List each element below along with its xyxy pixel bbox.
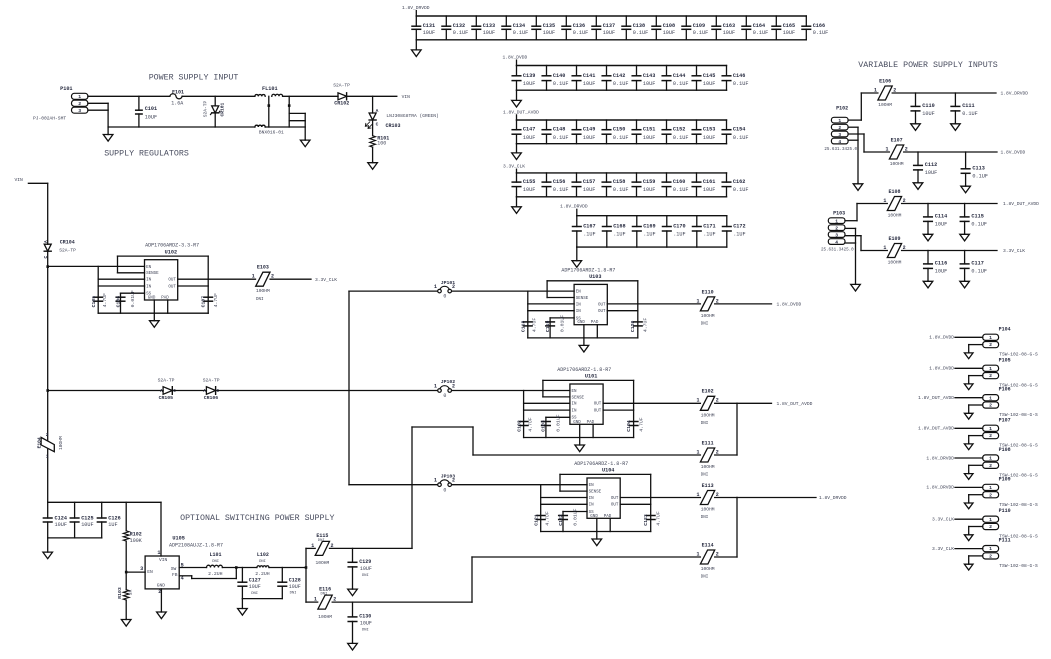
ground — [300, 140, 310, 147]
svg-text:10UF: 10UF — [703, 135, 715, 141]
svg-text:U102: U102 — [165, 249, 177, 255]
capacitor C141 — [572, 66, 595, 91]
wire SS — [121, 293, 145, 313]
svg-text:1: 1 — [838, 118, 841, 124]
svg-text:CR104: CR104 — [60, 240, 75, 246]
svg-text:0.1UF: 0.1UF — [573, 30, 589, 36]
svg-text:1.6A: 1.6A — [171, 100, 183, 106]
ground — [412, 40, 422, 57]
svg-text:L101: L101 — [210, 552, 222, 558]
zener diode CR101 — [202, 96, 225, 127]
svg-text:1: 1 — [883, 198, 886, 204]
svg-text:DNI: DNI — [212, 560, 219, 564]
svg-text:OPTIONAL SWITCHING POWER SUPPL: OPTIONAL SWITCHING POWER SUPPLY — [180, 514, 334, 523]
svg-text:10UF: 10UF — [483, 30, 495, 36]
ground — [964, 534, 973, 540]
svg-text:DNI: DNI — [362, 628, 369, 632]
capacitor C114 — [924, 204, 948, 234]
svg-text:1.8V_DVDD: 1.8V_DVDD — [777, 302, 802, 308]
svg-text:C151: C151 — [643, 127, 655, 133]
svg-text:P109: P109 — [999, 476, 1011, 482]
svg-text:1: 1 — [989, 395, 992, 401]
ground — [964, 444, 973, 450]
svg-text:1: 1 — [696, 449, 699, 455]
resistor R103 — [117, 572, 134, 619]
ground — [157, 612, 167, 619]
wire LED branch — [372, 96, 374, 113]
svg-text:C146: C146 — [733, 73, 745, 79]
capacitor C129 — [348, 548, 372, 588]
svg-text:0: 0 — [443, 294, 446, 300]
svg-text:E116: E116 — [319, 587, 331, 593]
capacitor C107 — [200, 293, 219, 308]
svg-text:C123: C123 — [643, 514, 649, 526]
svg-text:E111: E111 — [702, 440, 714, 446]
svg-text:4.7UF: 4.7UF — [545, 511, 551, 526]
svg-text:E114: E114 — [702, 542, 714, 548]
capacitor C166 — [802, 16, 828, 40]
svg-text:10UF: 10UF — [643, 135, 655, 141]
ground — [964, 384, 973, 390]
net label 1.8V_DUT_AVDD — [918, 395, 954, 401]
svg-text:0.1UF: 0.1UF — [693, 30, 709, 36]
svg-text:C169: C169 — [643, 224, 655, 230]
wire IN — [528, 291, 574, 338]
wire OUT — [603, 403, 634, 410]
svg-text:4.7UF: 4.7UF — [643, 318, 649, 333]
svg-text:C125: C125 — [81, 516, 93, 522]
svg-text:10UF: 10UF — [935, 222, 947, 228]
svg-text:C164: C164 — [753, 23, 765, 29]
wire E115 input — [306, 547, 315, 549]
svg-text:CR101: CR101 — [220, 102, 226, 116]
svg-text:C155: C155 — [523, 179, 535, 185]
svg-text:1: 1 — [989, 546, 992, 552]
capacitor C130 — [348, 602, 372, 643]
net label 3.3V_CLK — [1003, 248, 1025, 254]
svg-text:CR105: CR105 — [159, 395, 174, 401]
svg-text:C112: C112 — [925, 162, 937, 168]
ferrite bead E103 — [252, 265, 274, 302]
svg-text:SENSE: SENSE — [589, 491, 602, 495]
svg-text:2: 2 — [716, 492, 719, 498]
wire SENSE feedback — [118, 256, 209, 313]
svg-text:A: A — [44, 240, 49, 243]
svg-text:3: 3 — [78, 108, 81, 114]
capacitor C169 — [633, 216, 656, 247]
svg-text:IN: IN — [146, 285, 152, 289]
svg-text:10UF: 10UF — [783, 30, 795, 36]
capacitor C119 — [545, 315, 566, 332]
capacitor C123 — [643, 511, 662, 526]
svg-text:2: 2 — [716, 298, 719, 304]
wire E116 output — [332, 601, 472, 603]
svg-text:E109: E109 — [889, 236, 901, 242]
svg-text:10UF: 10UF — [703, 81, 715, 87]
svg-text:R103: R103 — [117, 587, 123, 599]
regulator U103 — [561, 267, 615, 325]
svg-text:C142: C142 — [613, 73, 625, 79]
ground — [923, 281, 933, 288]
wire P103 pin4 — [845, 242, 856, 244]
wire top bus — [517, 172, 727, 174]
svg-text:0.1UF: 0.1UF — [453, 30, 469, 36]
svg-text:C148: C148 — [553, 127, 565, 133]
svg-text:C131: C131 — [423, 23, 435, 29]
svg-text:1K: 1K — [128, 590, 134, 596]
wire bottom bus — [517, 196, 727, 198]
capacitor C126 — [97, 502, 120, 538]
junction — [268, 104, 271, 107]
svg-text:1.8V_DUT_AVDD: 1.8V_DUT_AVDD — [777, 401, 813, 407]
svg-text:IN: IN — [589, 497, 595, 501]
svg-text:C138: C138 — [633, 23, 645, 29]
ground — [964, 353, 973, 359]
svg-text:E104: E104 — [37, 437, 43, 448]
svg-text:P111: P111 — [999, 538, 1011, 544]
svg-text:2: 2 — [46, 433, 49, 438]
svg-text:2: 2 — [835, 225, 838, 231]
svg-text:1: 1 — [989, 426, 992, 432]
svg-text:10UF: 10UF — [583, 135, 595, 141]
svg-text:E103: E103 — [257, 265, 269, 271]
svg-text:DNI: DNI — [362, 574, 369, 578]
connector P109 — [983, 476, 1038, 507]
svg-text:1: 1 — [696, 551, 699, 557]
capacitor C138 — [622, 16, 648, 40]
net label 1.8V_DRVDD — [926, 485, 954, 491]
wire SENSE feedback — [543, 380, 634, 437]
capacitor C154 — [722, 120, 748, 144]
wire net to pin1 — [955, 548, 983, 550]
wire net to pin1 — [955, 486, 983, 488]
capacitor C164 — [742, 16, 768, 40]
wire to VIN — [347, 95, 397, 97]
svg-text:C118: C118 — [521, 320, 527, 332]
svg-text:10UF: 10UF — [583, 81, 595, 87]
svg-text:P104: P104 — [999, 326, 1011, 332]
svg-text:10OHM: 10OHM — [701, 412, 715, 418]
ground — [913, 182, 923, 189]
svg-text:1: 1 — [434, 284, 437, 290]
svg-text:C165: C165 — [783, 23, 795, 29]
connector P101 — [33, 86, 88, 122]
svg-text:2: 2 — [989, 342, 992, 348]
svg-text:C163: C163 — [723, 23, 735, 29]
wire VIN rail lower — [47, 391, 49, 503]
diode CR102 — [333, 82, 350, 106]
svg-text:4.7UF: 4.7UF — [527, 417, 533, 432]
svg-text:10OHM: 10OHM — [318, 614, 332, 620]
ground — [238, 599, 248, 616]
svg-text:3: 3 — [140, 566, 143, 572]
svg-text:4.7UF: 4.7UF — [638, 417, 644, 432]
svg-text:S2A-TP: S2A-TP — [203, 377, 220, 383]
net label 1.8V_DVDD — [1001, 150, 1026, 156]
svg-text:10OHM: 10OHM — [316, 560, 330, 566]
svg-text:C109: C109 — [693, 23, 705, 29]
svg-text:SENSE: SENSE — [572, 396, 585, 400]
capacitor C137 — [592, 16, 615, 40]
capacitor C113 — [961, 152, 988, 186]
ground — [964, 503, 973, 509]
capacitor C139 — [512, 66, 535, 91]
svg-text:1: 1 — [874, 87, 877, 93]
capacitor C132 — [442, 16, 468, 40]
svg-text:1.8V_DUT_AVDD: 1.8V_DUT_AVDD — [918, 395, 954, 401]
svg-text:2: 2 — [716, 398, 719, 404]
jumper JP101 — [434, 280, 455, 300]
svg-text:1.8V_DVDD: 1.8V_DVDD — [929, 335, 954, 341]
connector P110 — [983, 508, 1038, 539]
svg-text:C158: C158 — [613, 179, 625, 185]
svg-text:CR106: CR106 — [204, 395, 219, 401]
wire net to pin1 — [955, 397, 983, 399]
wire E114 tie — [736, 498, 738, 558]
svg-text:P102: P102 — [836, 105, 848, 111]
svg-text:4.7UF: 4.7UF — [532, 318, 538, 333]
svg-text:10UF: 10UF — [603, 30, 615, 36]
capacitor C146 — [722, 66, 748, 91]
title VARIABLE POWER SUPPLY INPUTS — [858, 61, 997, 70]
svg-text:C120: C120 — [630, 320, 636, 332]
wire SS — [563, 512, 587, 532]
ground — [951, 123, 961, 130]
svg-text:TSW-102-08-G-S: TSW-102-08-G-S — [999, 502, 1038, 508]
svg-text:4.7UF: 4.7UF — [213, 293, 219, 308]
svg-text:1: 1 — [314, 597, 317, 603]
wire bottom bus — [416, 39, 806, 41]
junction — [46, 265, 49, 268]
svg-text:10UF: 10UF — [643, 187, 655, 193]
ferrite bead E115 — [311, 533, 333, 566]
svg-text:3: 3 — [835, 232, 838, 238]
svg-text:IN: IN — [572, 403, 578, 407]
ground — [121, 619, 131, 626]
svg-text:P108: P108 — [999, 447, 1011, 453]
ground — [964, 564, 973, 570]
svg-text:DNI: DNI — [321, 593, 328, 597]
wire IN — [524, 391, 570, 438]
svg-text:3.3V_CLK: 3.3V_CLK — [1003, 248, 1025, 254]
ferrite bead E104 — [37, 433, 64, 460]
svg-text:C111: C111 — [962, 103, 974, 109]
junction — [46, 389, 49, 392]
capacitor C140 — [542, 66, 568, 91]
svg-text:LNJ308G8TRA (GREEN): LNJ308G8TRA (GREEN) — [386, 113, 438, 119]
wire P101 pin3 — [88, 109, 108, 111]
svg-text:C145: C145 — [703, 73, 715, 79]
capacitor C116 — [924, 251, 948, 281]
net label 3.3V_CLK — [315, 277, 337, 283]
net label 1.8V_DVDD — [929, 335, 954, 341]
net label 1.8V_DVDD — [503, 55, 528, 66]
wire cap ground rail — [48, 537, 102, 539]
ground — [512, 90, 522, 107]
svg-text:E108: E108 — [889, 189, 901, 195]
svg-text:DNI: DNI — [701, 474, 709, 478]
net label VIN — [402, 94, 411, 100]
wire P103 pin1 to E108 — [845, 204, 887, 221]
wire E111 tie — [736, 403, 738, 455]
svg-text:1: 1 — [696, 492, 699, 498]
svg-text:10UF: 10UF — [523, 187, 535, 193]
connector P102 — [824, 105, 857, 152]
wire pin2 to ground — [969, 405, 983, 413]
wire IN — [541, 485, 587, 532]
svg-text:U101: U101 — [585, 374, 597, 380]
svg-text:C140: C140 — [553, 73, 565, 79]
svg-text:1.8V_DVDD: 1.8V_DVDD — [1001, 150, 1026, 156]
ground — [964, 473, 973, 479]
junction — [235, 566, 238, 569]
svg-text:C117: C117 — [971, 261, 983, 267]
svg-text:1: 1 — [157, 550, 160, 556]
capacitor C168 — [603, 216, 626, 247]
svg-text:DNI: DNI — [256, 298, 264, 302]
svg-text:C128: C128 — [289, 577, 301, 583]
svg-text:C161: C161 — [703, 179, 715, 185]
wire U103 output — [638, 303, 772, 305]
svg-text:.1UF: .1UF — [703, 232, 715, 238]
svg-text:P110: P110 — [999, 508, 1011, 514]
svg-text:C106: C106 — [115, 296, 121, 308]
svg-text:C114: C114 — [935, 214, 947, 220]
connector P111 — [983, 538, 1038, 569]
svg-text:DNI: DNI — [701, 422, 709, 426]
ground — [150, 313, 160, 327]
svg-text:C122: C122 — [558, 514, 564, 526]
svg-text:E113: E113 — [702, 483, 714, 489]
svg-text:2: 2 — [452, 383, 455, 389]
svg-text:DNI: DNI — [251, 592, 258, 596]
capacitor C148 — [542, 120, 568, 144]
svg-text:0.01UF: 0.01UF — [560, 315, 566, 332]
svg-text:10OHM: 10OHM — [701, 464, 715, 470]
svg-text:1.8V_DRVDD: 1.8V_DRVDD — [819, 495, 847, 501]
wire — [182, 95, 255, 97]
wire SW — [179, 567, 206, 569]
inductor L102 — [255, 552, 270, 577]
svg-text:S2A-TP: S2A-TP — [202, 101, 208, 118]
svg-text:2.2UH: 2.2UH — [255, 571, 270, 577]
ferrite bead E109 — [883, 236, 997, 266]
svg-text:2: 2 — [989, 373, 992, 379]
svg-text:3.3V_CLK: 3.3V_CLK — [315, 277, 337, 283]
net label 3.3V_CLK — [932, 546, 954, 552]
svg-text:2: 2 — [989, 463, 992, 469]
svg-text:C110: C110 — [922, 103, 934, 109]
svg-text:S2A-TP: S2A-TP — [158, 377, 175, 383]
net label VIN — [15, 177, 48, 183]
capacitor C110 — [911, 93, 935, 123]
svg-text:C171: C171 — [703, 224, 715, 230]
svg-text:4.7UF: 4.7UF — [102, 293, 108, 308]
svg-text:C119: C119 — [545, 320, 551, 332]
svg-text:C149: C149 — [583, 127, 595, 133]
svg-text:S2A-TP: S2A-TP — [59, 248, 76, 254]
svg-text:C104: C104 — [626, 420, 632, 432]
svg-text:10OHM: 10OHM — [878, 102, 892, 108]
capacitor C143 — [632, 66, 655, 91]
wire OUT — [178, 279, 209, 286]
ground — [960, 281, 970, 288]
svg-text:1: 1 — [696, 298, 699, 304]
svg-text:DNI: DNI — [701, 516, 709, 520]
svg-text:10UF: 10UF — [583, 187, 595, 193]
wire EN pin — [126, 571, 145, 573]
svg-text:1: 1 — [883, 245, 886, 251]
capacitor C161 — [692, 173, 715, 197]
diode CR104 — [44, 240, 76, 391]
jumper JP102 — [434, 379, 455, 399]
ground — [964, 413, 973, 419]
ferrite bead E102 — [696, 389, 718, 426]
svg-text:F101: F101 — [172, 90, 184, 96]
wire net to pin1 — [955, 336, 983, 338]
capacitor C155 — [512, 173, 535, 197]
capacitor C104 — [626, 417, 645, 432]
wire U105 ground — [160, 589, 162, 612]
capacitor C135 — [532, 16, 555, 40]
svg-text:10OHM: 10OHM — [701, 507, 715, 513]
svg-text:C162: C162 — [733, 179, 745, 185]
svg-text:C133: C133 — [483, 23, 495, 29]
title POWER SUPPLY INPUT — [149, 74, 239, 83]
svg-text:BNX016-01: BNX016-01 — [259, 130, 284, 136]
wire E115 output — [330, 427, 413, 548]
svg-text:C102: C102 — [516, 420, 522, 432]
svg-text:4.7UF: 4.7UF — [656, 511, 662, 526]
svg-text:2: 2 — [989, 492, 992, 498]
svg-text:IN: IN — [576, 303, 582, 307]
svg-text:1.8V_DVDD: 1.8V_DVDD — [503, 55, 528, 61]
junction — [305, 566, 308, 569]
regulator U105 — [140, 536, 223, 595]
svg-text:1.8V_DUT_AVDD: 1.8V_DUT_AVDD — [1003, 201, 1039, 207]
capacitor C144 — [662, 66, 688, 91]
svg-text:1.8V_DRVDD: 1.8V_DRVDD — [926, 485, 954, 491]
wire pin2 to ground — [969, 556, 983, 564]
svg-text:10UF: 10UF — [543, 30, 555, 36]
svg-text:C153: C153 — [703, 127, 715, 133]
svg-text:C170: C170 — [673, 224, 685, 230]
svg-text:10UF: 10UF — [643, 81, 655, 87]
wire IN — [98, 266, 144, 313]
net label 3.3V_CLK — [932, 517, 954, 523]
svg-text:0: 0 — [443, 393, 446, 399]
svg-text:VIN: VIN — [402, 94, 411, 100]
svg-text:C144: C144 — [673, 73, 685, 79]
svg-text:C152: C152 — [673, 127, 685, 133]
svg-text:DNI: DNI — [701, 323, 709, 327]
svg-text:ADP2108AUJZ-1.8-R7: ADP2108AUJZ-1.8-R7 — [169, 542, 223, 548]
capacitor C117 — [960, 251, 987, 281]
ferrite bead E113 — [696, 483, 718, 520]
svg-text:TSW-102-08-G-S: TSW-102-08-G-S — [999, 563, 1038, 569]
wire pin2 to ground — [969, 436, 983, 444]
svg-text:.1UF: .1UF — [643, 232, 655, 238]
svg-text:E106: E106 — [879, 78, 891, 84]
svg-text:10UF: 10UF — [922, 111, 934, 117]
wire net to pin1 — [955, 367, 983, 369]
junction — [288, 104, 291, 107]
svg-text:VIN: VIN — [159, 557, 168, 563]
wire JP101 input — [349, 290, 574, 292]
svg-text:1: 1 — [989, 335, 992, 341]
svg-text:DNI: DNI — [290, 592, 297, 596]
svg-text:SW: SW — [171, 566, 177, 572]
